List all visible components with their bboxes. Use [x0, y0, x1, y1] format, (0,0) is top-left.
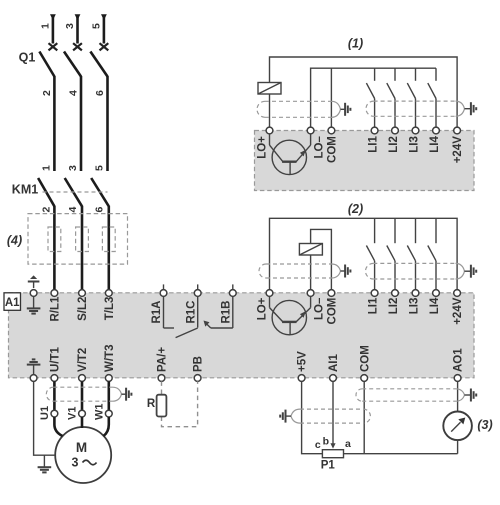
svg-text:b: b: [323, 436, 329, 448]
svg-text:4: 4: [67, 207, 79, 213]
svg-text:2: 2: [41, 207, 53, 213]
svg-text:AO1: AO1: [453, 348, 465, 372]
svg-text:3: 3: [64, 23, 76, 29]
svg-text:LO+: LO+: [257, 297, 269, 320]
svg-text:W1: W1: [93, 404, 105, 421]
svg-text:R1B: R1B: [220, 301, 232, 324]
svg-text:LI2: LI2: [388, 136, 400, 153]
svg-text:LI1: LI1: [368, 297, 380, 314]
svg-text:+24V: +24V: [452, 297, 464, 325]
svg-text:R1A: R1A: [151, 301, 163, 324]
svg-text:+5V: +5V: [297, 351, 309, 372]
svg-text:U1: U1: [39, 406, 51, 420]
svg-text:S/L2: S/L2: [77, 297, 89, 321]
svg-text:Q1: Q1: [19, 51, 36, 65]
svg-text:(2): (2): [348, 202, 363, 216]
svg-text:5: 5: [94, 165, 106, 171]
svg-text:6: 6: [94, 207, 106, 213]
svg-text:(4): (4): [7, 234, 22, 248]
svg-text:R/L1: R/L1: [50, 296, 62, 322]
svg-text:LI4: LI4: [429, 297, 441, 314]
svg-text:c: c: [315, 439, 321, 451]
svg-text:V1: V1: [67, 407, 79, 420]
svg-text:LI2: LI2: [388, 298, 400, 315]
svg-text:V/T2: V/T2: [77, 348, 89, 372]
svg-text:1: 1: [41, 165, 53, 171]
svg-text:COM: COM: [327, 298, 339, 325]
svg-text:U/T1: U/T1: [50, 346, 62, 372]
svg-text:3: 3: [72, 456, 79, 470]
svg-text:+24V: +24V: [452, 136, 464, 164]
svg-text:1: 1: [39, 23, 51, 29]
svg-text:AI1: AI1: [328, 354, 340, 373]
svg-text:3: 3: [67, 165, 79, 171]
svg-text:2: 2: [41, 90, 53, 96]
svg-text:6: 6: [94, 90, 106, 96]
svg-text:LO–: LO–: [314, 136, 326, 159]
svg-text:COM: COM: [327, 136, 339, 163]
svg-text:a: a: [345, 438, 351, 450]
svg-text:M: M: [76, 440, 87, 455]
svg-text:KM1: KM1: [12, 183, 38, 197]
svg-text:LI4: LI4: [429, 136, 441, 153]
svg-text:LI1: LI1: [368, 136, 380, 153]
svg-text:LO–: LO–: [314, 297, 326, 320]
svg-text:A1: A1: [5, 297, 20, 309]
svg-text:COM: COM: [359, 345, 371, 372]
svg-text:R1C: R1C: [185, 301, 197, 324]
svg-text:5: 5: [90, 23, 102, 29]
svg-text:R: R: [147, 398, 156, 410]
svg-text:W/T3: W/T3: [104, 345, 116, 372]
svg-text:4: 4: [67, 90, 79, 96]
svg-text:LI3: LI3: [409, 298, 421, 315]
svg-text:LI3: LI3: [409, 136, 421, 153]
svg-text:PB: PB: [193, 356, 205, 372]
svg-text:LO+: LO+: [257, 136, 269, 159]
svg-text:PA/+: PA/+: [157, 347, 169, 372]
svg-text:(1): (1): [348, 37, 363, 51]
svg-text:P1: P1: [321, 459, 336, 471]
svg-text:(3): (3): [477, 418, 492, 432]
svg-text:T/L3: T/L3: [104, 297, 116, 321]
